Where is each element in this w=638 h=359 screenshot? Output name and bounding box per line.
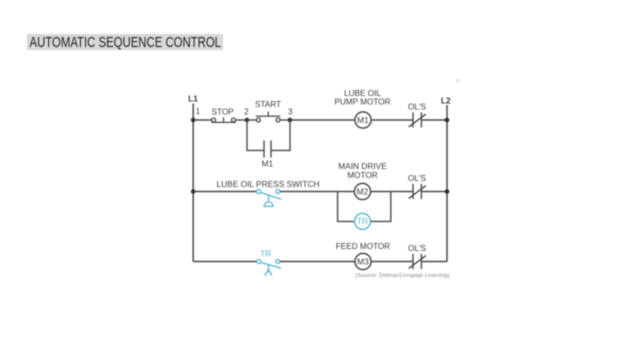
wire M2 to OL rung2 xyxy=(371,191,413,193)
coil M1 xyxy=(355,112,371,128)
contact M1 (NO, holding) xyxy=(264,140,271,157)
svg-text:TR: TR xyxy=(357,216,368,226)
pushbutton START (NO) xyxy=(256,112,280,122)
svg-text:START: START xyxy=(255,100,281,109)
coil TR xyxy=(355,213,371,229)
svg-text:OL'S: OL'S xyxy=(408,244,426,253)
svg-text:LUBE OIL PRESS SWITCH: LUBE OIL PRESS SWITCH xyxy=(217,180,320,189)
rail L1 xyxy=(192,104,194,262)
svg-text:MOTOR: MOTOR xyxy=(347,171,377,180)
wire OL to L2 rung2 xyxy=(421,191,447,193)
wire OL to L2 rung1 xyxy=(421,119,447,121)
coil M2 xyxy=(354,183,370,199)
title AUTOMATIC SEQUENCE CONTROL xyxy=(27,34,223,51)
svg-text:(Source: Delmar/Cengage Learni: (Source: Delmar/Cengage Learning) xyxy=(356,273,450,279)
wire node3 to coil M1 xyxy=(290,119,355,121)
svg-text:TR: TR xyxy=(260,249,271,258)
svg-text:OL'S: OL'S xyxy=(408,102,426,111)
wire OL to L2 rung3 xyxy=(421,261,447,263)
overload contact OL'S rung2 xyxy=(409,184,426,199)
node rung1-L2 xyxy=(445,118,450,123)
node rung2-L1 xyxy=(191,189,196,194)
node 2 xyxy=(245,118,250,123)
svg-text:OL'S: OL'S xyxy=(408,174,426,183)
pushbutton STOP (NC) xyxy=(211,117,236,122)
svg-text:M1: M1 xyxy=(357,115,369,125)
wire TR branch left xyxy=(338,192,355,222)
rail L2 xyxy=(446,105,448,262)
wire TR branch right xyxy=(371,192,391,222)
coil M3 xyxy=(355,253,371,269)
wire pressure switch to coil M2 xyxy=(280,191,354,193)
timed contact TR (NOTC) xyxy=(257,260,281,276)
node 3 xyxy=(288,118,293,123)
svg-text:PUMP MOTOR: PUMP MOTOR xyxy=(334,98,390,107)
svg-text:M3: M3 xyxy=(357,256,369,266)
svg-text:2: 2 xyxy=(244,107,249,116)
wire M3 to OL rung3 xyxy=(371,261,413,263)
svg-text:M1: M1 xyxy=(262,159,274,169)
stray faint mark xyxy=(456,79,459,83)
svg-text:1: 1 xyxy=(196,107,201,116)
wire STOP to node 2 xyxy=(236,119,248,121)
wire node2 to START xyxy=(247,119,256,121)
wire TR contact to coil M3 xyxy=(280,261,355,263)
wire M1 to OL xyxy=(371,119,413,121)
wire rung1 L1 to STOP xyxy=(193,119,211,121)
wire branch down from node2 xyxy=(247,120,264,150)
node 1 xyxy=(191,118,196,123)
overload contact OL'S rung3 xyxy=(409,254,426,269)
node rung2-L2 xyxy=(445,189,450,194)
pressure switch (NO) xyxy=(257,190,282,207)
svg-text:L1: L1 xyxy=(188,94,198,104)
svg-text:AUTOMATIC SEQUENCE CONTROL: AUTOMATIC SEQUENCE CONTROL xyxy=(30,35,222,51)
svg-text:STOP: STOP xyxy=(212,107,235,116)
wire rung2 L1 to pressure switch xyxy=(193,191,256,193)
svg-text:L2: L2 xyxy=(441,95,451,105)
svg-text:M2: M2 xyxy=(357,186,369,196)
svg-text:3: 3 xyxy=(288,107,293,116)
wire branch up to node3 xyxy=(271,120,290,150)
svg-text:FEED MOTOR: FEED MOTOR xyxy=(336,242,391,251)
overload contact OL'S rung1 xyxy=(409,112,426,127)
wire rung3 L1 to TR contact xyxy=(193,261,257,263)
wire START to node 3 xyxy=(280,119,290,121)
